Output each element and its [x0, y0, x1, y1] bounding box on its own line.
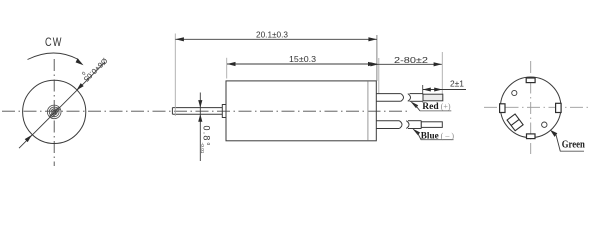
svg-text:Green: Green [562, 140, 585, 151]
svg-text:2±1: 2±1 [450, 80, 465, 89]
svg-text:-0.01: -0.01 [199, 143, 205, 154]
svg-text:Red(+): Red(+) [422, 102, 451, 112]
svg-text:0: 0 [205, 143, 211, 146]
svg-text:CW: CW [45, 37, 63, 49]
svg-text:20.1±0.3: 20.1±0.3 [256, 30, 289, 39]
svg-text:Blue( – ): Blue( – ) [421, 130, 455, 140]
svg-text:0.8: 0.8 [202, 126, 212, 142]
svg-text:15±0.3: 15±0.3 [289, 55, 317, 64]
svg-text:2-80±2: 2-80±2 [394, 56, 429, 65]
